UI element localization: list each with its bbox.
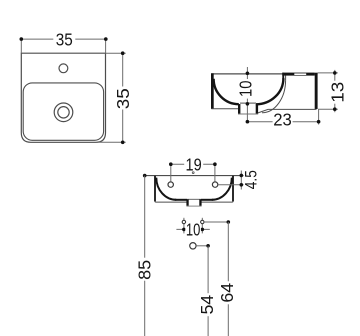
- left wall bar (front): [154, 176, 156, 202]
- dimension 10 (installation): end dots: [182, 228, 186, 232]
- dimension 85: vertical line to floor: [144, 176, 146, 336]
- basin body outline (plan): [21, 53, 105, 142]
- faucet hole (plan): [59, 64, 68, 73]
- drain stub bottom line (front): [186, 205, 201, 207]
- overflow mark (front): [192, 172, 194, 174]
- dimension 10 (installation): extension lines: [183, 218, 185, 234]
- node dot on 64 line: [227, 220, 231, 224]
- bowl bottom line right (front): [201, 199, 213, 201]
- dimension 19 (front): end dots: [169, 162, 173, 166]
- svg-text:10: 10: [236, 80, 256, 97]
- svg-text:35: 35: [113, 88, 133, 109]
- svg-text:54: 54: [197, 295, 217, 315]
- dimension 19 (front): label: [184, 157, 203, 171]
- dimension 4.5 (front): end dots: [240, 174, 244, 178]
- drain stub interior (front): [187, 199, 201, 206]
- dimension 10 (side): extension above rim: [246, 67, 248, 73]
- svg-text:23: 23: [273, 109, 292, 129]
- dimension 23 (side): label: [273, 112, 293, 126]
- underside right line (side): [258, 109, 317, 113]
- dimension 35 top: dimension line: [21, 38, 106, 40]
- dimension 54: vertical line to floor: [207, 246, 209, 336]
- rim top line (side): [211, 73, 317, 75]
- svg-text:85: 85: [134, 260, 154, 280]
- basin bottom outline (front): [155, 201, 233, 202]
- bowl outer rear thin curve (side): [262, 80, 286, 113]
- dimension 13 (side): end dots: [333, 71, 337, 75]
- basin rim (plan): [23, 83, 103, 140]
- dimension 85: label (rotated): [138, 258, 152, 281]
- drain stub (side): top line: [240, 102, 256, 104]
- drain stub right bar (front): [199, 199, 201, 205]
- svg-text:64: 64: [217, 283, 237, 303]
- leader from supply hole to 64 line: [204, 221, 228, 223]
- dimension 13 (side): dimension line: [334, 70, 336, 112]
- dimension 4.5 (front): dimension line with tails: [240, 171, 242, 190]
- bowl inner curve left (front): [156, 178, 176, 200]
- drain stub top line (front): [187, 198, 201, 200]
- tap hole gap in deck (side): [294, 73, 306, 75]
- basin top edge line (front), extends to 85 leader and 4.5 extension: [145, 175, 244, 177]
- svg-text:4.5: 4.5: [243, 170, 261, 189]
- dimension 35 right: extension lines: [106, 52, 126, 54]
- leader from waste pipe to 54 line: [196, 245, 208, 247]
- fixing hole right (front): [212, 182, 217, 187]
- bowl inner curve right (front): [212, 178, 232, 200]
- dimension 35 right: label (rotated): [116, 87, 130, 110]
- dimension 23 (side): dimension line: [247, 121, 318, 123]
- dimension 35 right: dimension line: [122, 53, 124, 142]
- right wall bar (front): [232, 176, 234, 202]
- dimension 10 (side): dimension line: [246, 73, 248, 121]
- supply hole left (installation): [182, 220, 185, 223]
- drain stub (side): left bar: [238, 104, 240, 114]
- svg-text:19: 19: [186, 154, 202, 174]
- dimension 10 (side): end dots: [246, 72, 250, 76]
- drain stub (side): right bar: [256, 104, 258, 114]
- drain stub left bar (front): [186, 199, 188, 205]
- dimension 10 (installation): dimension line with outside tails: [176, 228, 209, 230]
- bowl bottom line left (front): [175, 199, 187, 201]
- waste pipe circle (installation): [190, 243, 196, 249]
- node dot on 54 line: [206, 244, 210, 248]
- svg-text:10: 10: [186, 220, 201, 240]
- dimension 23 (side): right extension line down: [318, 109, 320, 124]
- bowl inner surface rear curve (side): [256, 78, 284, 104]
- supply hole right (installation): [201, 220, 204, 223]
- dimension 10 (installation): label: [185, 223, 201, 236]
- dimension 85: end dot at rim level: [143, 174, 147, 178]
- dimension 10 (side): label (rotated): [239, 79, 253, 99]
- underside left line (side): [211, 108, 238, 110]
- svg-text:35: 35: [56, 29, 73, 49]
- drain stub (side): bottom line: [238, 113, 258, 115]
- dimension 54: label (rotated): [200, 293, 214, 316]
- dimension 23 (side): end dots: [246, 120, 250, 124]
- drain outer circle (plan): [54, 103, 73, 122]
- deck front edge (side): [285, 76, 287, 81]
- front wall section bar (side): [211, 73, 214, 109]
- dimension 19 (front): dimension line: [171, 163, 215, 165]
- dimension 19 (front): extension lines: [170, 164, 172, 181]
- rear deck section bar (side): [282, 73, 314, 76]
- dimension 13 (side): label (rotated): [330, 81, 344, 104]
- dimension 64: label (rotated): [220, 281, 234, 304]
- dimension 64: vertical line to floor: [227, 222, 229, 336]
- svg-text:13: 13: [328, 82, 348, 103]
- drain inner circle (plan): [58, 107, 69, 118]
- dimension 13 (side): extension lines: [318, 72, 338, 74]
- dimension 35 right: end dots: [121, 51, 125, 55]
- dimension 35 top: label: [53, 32, 75, 46]
- rear wall section bar (side): [315, 73, 318, 109]
- fixing hole left (front): [168, 182, 173, 187]
- dimension 4.5 (front): extension lines: [218, 184, 244, 186]
- bowl inner surface front curve (side): [214, 79, 239, 104]
- dimension 35 top: end dots: [20, 37, 24, 41]
- deck front nub (side): [282, 73, 284, 79]
- dimension 35 top: extension lines: [20, 39, 22, 53]
